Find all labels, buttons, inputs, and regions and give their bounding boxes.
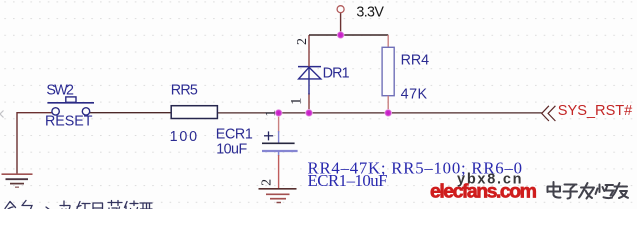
char zi: [564, 185, 578, 199]
char bi: [108, 201, 123, 216]
svg-text:2: 2: [259, 179, 274, 186]
svg-text:RR5: RR5: [171, 82, 198, 98]
capacitor ECR1: [262, 131, 298, 156]
ground GND capacitor: [259, 189, 297, 203]
char you: [613, 183, 629, 198]
svg-text:10uF: 10uF: [216, 142, 247, 158]
svg-text:SW2: SW2: [46, 83, 74, 99]
diode DR1: [298, 67, 321, 95]
svg-text:100: 100: [170, 129, 198, 145]
wire capacitor to ground: [278, 155, 280, 189]
svg-text:ECR1: ECR1: [216, 127, 253, 143]
svg-text:1: 1: [288, 97, 304, 105]
svg-text:3.3V: 3.3V: [356, 5, 384, 21]
bottom clipped text (drawn glyph tops): [5, 201, 152, 216]
left edge clipped port mark: [0, 111, 4, 118]
svg-text:47K: 47K: [401, 86, 428, 102]
wire RR4 top: [387, 35, 389, 48]
char zai: [77, 202, 90, 216]
char fa: [579, 183, 594, 199]
char shao: [596, 185, 614, 199]
comma: [46, 207, 50, 210]
wire diode bottom: [308, 93, 310, 113]
wire RR4 bottom: [387, 96, 389, 113]
wire switch to RR5: [90, 112, 171, 114]
wire diode top: [308, 35, 310, 67]
wire RR5 to port SYS_RST#: [217, 112, 542, 114]
svg-text:RR4: RR4: [401, 52, 430, 68]
svg-text:RESET: RESET: [45, 114, 93, 130]
junction dot at RR4: [384, 109, 392, 117]
char fang: [60, 201, 71, 215]
junction dot at diode: [305, 109, 313, 117]
resistor RR4: [382, 47, 394, 95]
svg-text:DR1: DR1: [323, 65, 350, 81]
char zhi: [140, 203, 152, 213]
watermark chinese glyphs (drawn): [548, 182, 629, 199]
resistor RR5: [171, 106, 217, 119]
wire top rail: [309, 34, 388, 36]
switch SW2: [47, 97, 94, 115]
svg-text:SYS_RST#: SYS_RST#: [558, 103, 633, 119]
char dian: [548, 182, 561, 198]
wire left stub to ground corner: [17, 113, 52, 174]
char wei: [125, 201, 139, 215]
ground GND left: [2, 174, 33, 187]
wire junction to capacitor: [278, 113, 280, 133]
svg-text:2: 2: [295, 38, 310, 45]
junction dot at power rail: [337, 31, 345, 39]
char 2: [22, 201, 32, 216]
junction dot at capacitor: [275, 109, 283, 117]
char ping: [93, 203, 103, 213]
svg-text:elecfans.com: elecfans.com: [430, 180, 537, 202]
char 1: [5, 202, 16, 214]
port chevrons SYS_RST#: [542, 106, 556, 121]
power 3.3V: [340, 13, 342, 35]
svg-text:ECR1–10uF: ECR1–10uF: [308, 171, 388, 190]
